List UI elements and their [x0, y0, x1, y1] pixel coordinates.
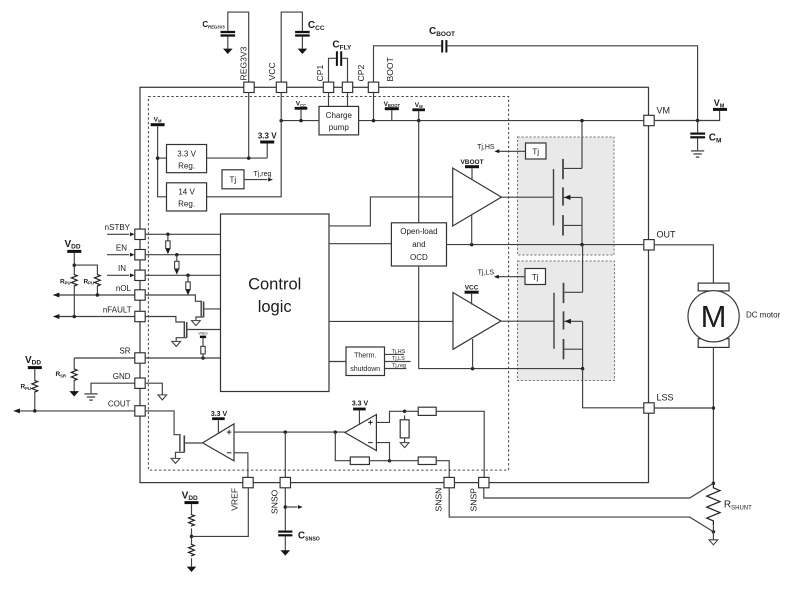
svg-text:REG3V3: REG3V3 — [238, 46, 248, 80]
svg-text:Open-load: Open-load — [400, 227, 437, 236]
body arrow LS — [565, 319, 571, 324]
svg-text:Reg.: Reg. — [178, 161, 195, 170]
wire CBOOT to VM node — [447, 46, 697, 121]
resistor RPU (nFAULT) — [71, 274, 77, 287]
wire VM feed down to OCD box — [418, 121, 420, 223]
MOSFET HS — [554, 159, 583, 236]
pin SNSP — [479, 477, 489, 487]
wire 3.3V reg output — [207, 157, 268, 159]
wire control to LS driver — [329, 320, 453, 322]
ground (CREG3V3) — [223, 49, 233, 54]
svg-text:Reg.: Reg. — [178, 200, 195, 209]
pin VREF — [243, 477, 253, 487]
transistor Q-nFAULT — [176, 321, 220, 341]
node RPU2/nOL — [96, 293, 100, 297]
wire comp1 plus line to sense amp — [234, 431, 345, 433]
wire CP1 to CFLY — [329, 58, 337, 82]
svg-text:and: and — [412, 240, 425, 249]
wire control to thermal shutdown — [329, 361, 346, 363]
pin VCC — [276, 82, 286, 92]
svg-text:nSTBY: nSTBY — [105, 223, 131, 232]
svg-text:nOL: nOL — [116, 284, 132, 293]
ground (CM) — [691, 151, 704, 157]
node RPU1/nFAULT — [73, 315, 77, 319]
wire nOL to transistor gate — [145, 295, 200, 301]
wire SNSO external — [284, 488, 286, 530]
ground (RSR) — [69, 391, 79, 396]
temperature sensor Tj HS — [526, 143, 547, 159]
wire GND internal — [145, 383, 162, 395]
svg-text:Tj: Tj — [532, 147, 539, 156]
pin VM — [644, 115, 654, 125]
DC motor — [698, 283, 729, 291]
wire COUT to comparator transistor — [145, 411, 179, 435]
wire OCD bottom to LS sense line — [419, 266, 583, 369]
wire OCD output to OUT node — [447, 244, 644, 246]
node HS driver sense tap — [470, 243, 474, 247]
wire divider to VREF pin — [192, 488, 249, 536]
capacitor CSNSO — [278, 532, 292, 536]
node CM junction — [696, 119, 700, 123]
wire to SNSP resistor — [405, 410, 419, 412]
wire EN to control logic — [145, 254, 220, 256]
svg-text:Tj: Tj — [532, 273, 539, 282]
node SNSO tap external — [284, 505, 288, 509]
gate driver HS — [453, 168, 502, 226]
arrow Tj,HS — [499, 150, 526, 152]
wire SNSN kelvin — [449, 488, 713, 532]
pin SNSN — [444, 477, 454, 487]
wire to SNSN resistor — [390, 460, 419, 462]
wire charge pump output rail to VM pin — [359, 120, 644, 122]
chip inner dashed boundary — [148, 97, 508, 471]
svg-text:SR: SR — [119, 347, 130, 356]
resistor RSR — [73, 358, 75, 368]
svg-text:OUT: OUT — [657, 230, 677, 240]
svg-text:IN: IN — [118, 264, 126, 273]
wire LS drain to OUT node — [582, 245, 584, 293]
supply bar VM top-left — [151, 123, 165, 126]
svg-text:Tj,LS: Tj,LS — [392, 356, 405, 362]
svg-text:SNSN: SNSN — [433, 488, 443, 512]
resistor R-SNSN — [418, 457, 436, 465]
svg-text:Charge: Charge — [326, 111, 353, 120]
pin COUT — [135, 406, 145, 416]
node divider tap — [190, 535, 194, 539]
pin CP1 — [323, 82, 333, 92]
node shunt top — [712, 482, 716, 486]
svg-text:GND: GND — [113, 372, 131, 381]
pull-up VREG on SR — [201, 356, 205, 360]
transistor Q-nOL — [196, 301, 221, 321]
pin SR — [135, 353, 145, 363]
resistor R-feedback — [350, 457, 369, 465]
pin nOL — [135, 290, 145, 300]
wire nFAULT output — [54, 316, 135, 318]
ground (nOL source) — [192, 321, 201, 326]
pin OUT — [644, 240, 654, 250]
svg-text:CP2: CP2 — [356, 65, 366, 82]
supply bar VBOOT — [465, 165, 479, 168]
wire Tj,LS output — [385, 361, 411, 363]
pin nSTBY — [135, 229, 145, 239]
resistor RPU (COUT) — [32, 380, 38, 393]
node VM feed junction — [417, 119, 421, 123]
node VCC/rail junction — [279, 119, 283, 123]
temperature sensor Tj LS — [525, 269, 546, 285]
plus input mark — [368, 420, 373, 425]
node LS source junction — [581, 367, 585, 371]
pin LSS — [644, 403, 654, 413]
wire resistor to SNSN pin — [436, 461, 449, 478]
wire LS source to LSS pin — [583, 369, 644, 408]
wire GND left to ground — [91, 383, 135, 393]
svg-text:BOOT: BOOT — [385, 56, 395, 81]
svg-text:Tj: Tj — [229, 176, 236, 185]
svg-text:VM: VM — [657, 106, 671, 116]
supply bar VBOOT internal — [385, 107, 399, 110]
ground (nFAULT source) — [172, 341, 181, 346]
wire LSS pin to shunt — [654, 407, 713, 409]
node LS driver sense tap — [471, 367, 475, 371]
capacitor CM — [697, 121, 699, 133]
ground (GND internal) — [158, 395, 167, 400]
svg-text:VBOOT: VBOOT — [460, 159, 483, 166]
node RPU/COUT — [33, 409, 37, 413]
svg-text:M: M — [701, 299, 727, 334]
wire HS driver to gate — [501, 196, 553, 198]
arrow Tj,reg output — [244, 179, 268, 181]
wire comp1 minus to VREF — [234, 453, 248, 478]
svg-text:CP1: CP1 — [315, 65, 325, 82]
arrow Tj,LS — [499, 276, 526, 278]
svg-text:logic: logic — [258, 298, 292, 316]
3.3V regulator box — [167, 145, 207, 173]
pin SNSO — [280, 477, 290, 487]
arrow SNSO monitor — [285, 506, 297, 508]
wire feedback drop — [335, 432, 350, 461]
wire resistor to SNSP pin — [436, 411, 484, 477]
supply VDD (VREF divider) — [185, 501, 199, 504]
wire IN to control logic — [145, 274, 220, 276]
wire Tj,HS output — [385, 353, 404, 355]
svg-text:pump: pump — [329, 123, 350, 132]
wire VCC pin down to 14V regulator — [207, 93, 282, 197]
node minus junction — [388, 459, 392, 463]
svg-text:Therm.: Therm. — [354, 353, 376, 360]
ground (GND external) — [84, 394, 97, 400]
svg-text:VREG: VREG — [198, 331, 208, 335]
wire REG3V3 pin to top rail — [228, 12, 249, 82]
wire LS driver bottom stub — [472, 339, 474, 369]
node divider tap — [403, 410, 407, 414]
ground (RSHUNT) — [709, 540, 718, 545]
node VM reg junction — [156, 156, 160, 160]
svg-text:COUT: COUT — [108, 400, 131, 409]
svg-text:VREF: VREF — [229, 488, 239, 511]
ground (CSNSO) — [281, 550, 291, 555]
wire IN input stub — [107, 274, 129, 276]
supply bar VCC internal — [295, 107, 308, 110]
wire VM to 3.3V reg input — [158, 157, 167, 159]
wire VM bar down to regulators — [158, 126, 167, 197]
minus input mark — [227, 452, 232, 454]
resistor divider bottom — [189, 544, 195, 557]
wire CP2 into charge pump — [347, 93, 349, 107]
svg-text:SNSO: SNSO — [270, 489, 280, 514]
ground (CCC) — [298, 49, 308, 54]
svg-text:shutdown: shutdown — [350, 366, 380, 373]
svg-text:Control: Control — [248, 276, 301, 294]
supply bar VCC (LS driver) — [465, 291, 479, 294]
svg-text:nFAULT: nFAULT — [103, 305, 132, 314]
wire BOOT pin to CBOOT — [374, 46, 442, 82]
node VCC bar junction — [299, 119, 303, 123]
wire feedback to minus node — [369, 460, 389, 462]
resistor divider top — [189, 514, 195, 527]
svg-text:Tj,HS: Tj,HS — [477, 144, 495, 151]
svg-text:LSS: LSS — [657, 393, 674, 403]
capacitor CREG3V3 — [221, 32, 236, 36]
ground (divider) — [400, 443, 409, 448]
wire control to open-load/OCD — [329, 243, 391, 245]
pin nFAULT — [135, 311, 145, 321]
capacitor CBOOT — [442, 40, 446, 52]
wire SNSP kelvin — [484, 483, 714, 498]
wire VDD to RPU2 — [74, 265, 97, 274]
sense amp comp2 (points left) — [345, 415, 377, 451]
wire SR input — [74, 357, 135, 359]
resistor R-SNSP — [418, 407, 436, 415]
charge pump box U-CP — [319, 106, 359, 134]
wire VCC line to charge pump rail — [281, 120, 319, 122]
supply bar VM external — [713, 108, 727, 111]
svg-text:3.3 V: 3.3 V — [211, 411, 228, 418]
supply VDD (COUT pull-up) — [28, 366, 42, 369]
chip outer boundary — [140, 87, 649, 482]
wire EN input stub — [107, 254, 129, 256]
wire VM pin to VM supply — [654, 111, 719, 121]
body arrow HS — [564, 195, 570, 200]
wire comp2 plus input rail — [376, 411, 404, 422]
plus input mark — [227, 430, 232, 435]
open-load and OCD box — [391, 223, 446, 266]
control logic box — [221, 214, 330, 392]
wire HS driver bottom stub — [471, 214, 473, 245]
node SNSO tap — [284, 430, 288, 434]
node shunt bottom — [712, 530, 716, 534]
svg-text:VCC: VCC — [465, 284, 479, 291]
pin BOOT — [368, 82, 378, 92]
wire HS drain to VM rail — [581, 121, 583, 169]
wire SNSO drop — [284, 432, 286, 478]
svg-text:EN: EN — [116, 244, 127, 253]
resistor R-divider to ground — [404, 415, 406, 419]
pin EN — [135, 250, 145, 260]
wire OUT pin to motor — [654, 245, 713, 283]
pin IN — [135, 270, 145, 280]
svg-text:SNSP: SNSP — [468, 488, 478, 512]
wire nSTBY to control logic — [145, 233, 220, 235]
power stage LS grey block — [518, 261, 615, 381]
pin GND — [135, 378, 145, 388]
wire CP1 into charge pump — [328, 93, 330, 107]
wire SR to control logic — [145, 357, 220, 359]
capacitor CFLY — [337, 51, 341, 66]
svg-text:3.3 V: 3.3 V — [177, 149, 196, 158]
svg-text:VCC: VCC — [267, 62, 277, 80]
svg-text:Tj,reg: Tj,reg — [254, 171, 272, 178]
gate driver LS — [453, 293, 501, 350]
svg-text:DC motor: DC motor — [746, 310, 781, 319]
wire BOOT down to VCP rail — [373, 93, 375, 121]
wire comp2 minus input — [376, 443, 389, 461]
wire nOL output — [54, 294, 135, 296]
svg-text:14 V: 14 V — [178, 188, 195, 197]
supply bar 3.3V (comp1) — [212, 417, 225, 420]
wire VCC pin to CCC — [281, 12, 302, 82]
wire control to HS driver — [329, 197, 453, 226]
node REG3V3 junction — [247, 156, 251, 160]
wire nSTBY input stub — [107, 233, 129, 235]
supply bar 3.3V internal — [260, 141, 274, 144]
transistor Q-COUT — [176, 434, 203, 458]
pin REG3V3 — [244, 82, 254, 92]
pull-down EN — [175, 253, 179, 257]
capacitor CCC — [295, 32, 310, 36]
ground (Q-COUT source) — [171, 458, 180, 463]
power stage HS grey block — [518, 137, 615, 255]
svg-text:OCD: OCD — [410, 253, 428, 262]
svg-text:Tj,HS: Tj,HS — [392, 349, 406, 355]
node LSS junction — [712, 406, 716, 410]
node feedback tap — [334, 430, 338, 434]
svg-text:3.3 V: 3.3 V — [258, 132, 277, 141]
resistor RSHUNT — [707, 483, 720, 525]
svg-text:Tj,reg: Tj,reg — [392, 363, 406, 369]
wire HS source to OUT node — [581, 197, 583, 244]
wire COUT output — [14, 410, 135, 412]
node BOOT rail junction — [372, 119, 376, 123]
14V regulator box — [167, 183, 207, 211]
pin CP2 — [342, 82, 352, 92]
supply bar VM internal — [412, 108, 425, 111]
minus input mark — [368, 442, 373, 444]
wire Tj,reg output — [385, 368, 407, 370]
MOSFET LS — [554, 283, 583, 360]
pull-down IN — [186, 274, 190, 278]
wire CP2 to CFLY — [342, 58, 347, 82]
supply VDD (pull-ups) — [67, 250, 81, 253]
ground (divider) — [187, 567, 197, 572]
comparator COUT (points left) — [203, 424, 234, 461]
pull-down nSTBY — [166, 233, 170, 237]
node VDD branch — [73, 263, 77, 267]
wire nFAULT to transistor gate — [145, 317, 184, 323]
svg-text:Tj,LS: Tj,LS — [478, 269, 495, 276]
thermal shutdown box — [346, 347, 385, 376]
temperature sensor Tj (regulator) — [222, 170, 244, 189]
wire REG3V3 pin down to 3.3V reg output — [248, 93, 250, 159]
resistor RPU (nOL) — [95, 274, 101, 287]
wire motor to LSS node — [712, 347, 714, 483]
wire LS driver to gate — [501, 320, 554, 322]
supply bar 3.3V (comp2) — [353, 408, 366, 411]
wire LS body/source down — [582, 321, 584, 368]
svg-text:3.3 V: 3.3 V — [352, 400, 369, 407]
